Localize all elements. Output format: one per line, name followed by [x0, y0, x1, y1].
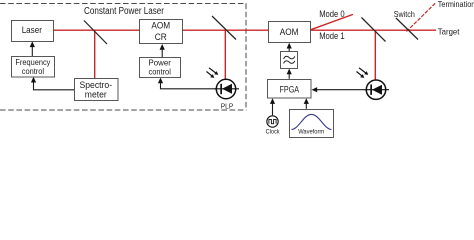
arrowhead into AOM CR — [160, 44, 165, 50]
box AOM CR — [140, 20, 183, 44]
wire: monitor photodiode to FPGA — [316, 89, 366, 91]
arrowhead into FPGA right edge — [312, 87, 318, 92]
light arrow 2 into monitor photodiode — [359, 68, 366, 73]
svg-text:Mode 0: Mode 0 — [319, 9, 345, 19]
box Spectrometer — [75, 79, 119, 101]
svg-text:PLP: PLP — [221, 104, 234, 111]
box Laser — [12, 21, 54, 42]
arrowhead into RF driver — [287, 69, 292, 75]
svg-text:Mode 1: Mode 1 — [319, 31, 345, 41]
box Power control — [140, 58, 181, 78]
svg-text:Laser: Laser — [22, 25, 42, 35]
box AOM — [269, 22, 311, 43]
wire: PLP photodiode to power control — [161, 81, 217, 89]
svg-text:Clock: Clock — [266, 128, 281, 135]
arrowhead into FPGA from waveform — [304, 98, 309, 104]
box Frequency control — [12, 57, 55, 78]
wire: RF driver to AOM — [288, 46, 290, 51]
svg-text:FPGA: FPGA — [280, 85, 300, 96]
arrowhead into frequency control — [31, 77, 36, 83]
beam: pickoff to spectrometer (vertical) — [94, 30, 96, 78]
wire: FPGA to RF driver — [288, 72, 290, 79]
arrowhead into AOM — [287, 43, 292, 49]
svg-text:Waveform: Waveform — [298, 129, 324, 136]
photodiode PLP — [207, 68, 240, 111]
box FPGA — [268, 80, 312, 99]
beam: switch deflected to Termination (red dashed) — [407, 3, 436, 32]
dashed enclosure bottom border — [0, 109, 247, 111]
arrowhead into power control — [158, 78, 163, 84]
svg-text:control: control — [22, 66, 44, 76]
light arrow 1 into PLP — [207, 72, 212, 76]
switch mirror — [396, 18, 418, 40]
svg-text:Target: Target — [438, 28, 460, 37]
box Waveform with gaussian curve — [290, 110, 334, 138]
wire: clock to FPGA — [272, 102, 274, 115]
light arrow 1 into monitor photodiode — [357, 72, 362, 76]
dashed enclosure top border (Constant Power Laser region) — [0, 3, 247, 5]
svg-text:Termination: Termination — [438, 0, 474, 9]
clock source symbol — [266, 116, 281, 136]
beam splitter BS2 (PLP pickoff) — [212, 16, 236, 40]
photodiode (monitor, to FPGA) — [357, 68, 390, 100]
svg-text:AOM: AOM — [280, 27, 299, 37]
svg-text:Switch: Switch — [394, 10, 415, 19]
wire: power control to AOM CR — [161, 48, 163, 58]
arrowhead into laser — [30, 41, 35, 47]
wire: frequency control to laser — [31, 45, 33, 56]
svg-text:meter: meter — [85, 89, 107, 99]
dashed enclosure right border — [245, 4, 247, 111]
arrowhead into FPGA from clock — [270, 98, 275, 104]
beam: pickoff to PLP photodiode (vertical) — [224, 30, 226, 79]
svg-text:CR: CR — [155, 32, 167, 42]
beam: AOM Mode 1 output to Target — [311, 29, 437, 31]
wire: spectrometer to frequency control — [34, 80, 75, 90]
beam: pickoff to monitor photodiode (vertical) — [374, 30, 376, 79]
beam splitter BS1 (after laser) — [84, 21, 107, 45]
RF driver (oscillator) box — [281, 52, 298, 69]
beam: Laser to AOM CR (red, y=30) — [53, 29, 140, 31]
svg-text:Constant Power Laser: Constant Power Laser — [84, 6, 165, 17]
beam: AOM Mode 0 output (diagonal) — [311, 14, 354, 29]
wire: waveform to FPGA — [305, 102, 307, 109]
svg-text:control: control — [149, 67, 171, 77]
beam: AOM CR to AOM — [183, 29, 269, 31]
svg-text:AOM: AOM — [151, 20, 170, 30]
beam splitter BS3 (monitor pickoff) — [362, 18, 386, 42]
light arrow 2 into PLP — [209, 68, 216, 73]
